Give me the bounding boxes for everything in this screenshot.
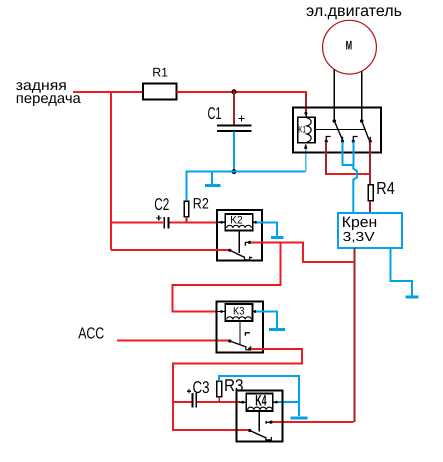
node junction C1 top [232,90,236,94]
wire ACC to K3 armature [117,340,229,342]
K1 switch 2 armature [362,121,369,140]
wire junction drop at x=111 (left bus) [110,92,112,250]
relay K1 outer box [293,108,381,153]
wire R3 bottom stub [218,397,220,403]
wire contact A down [325,141,327,175]
K3 armature [228,339,231,342]
K4 coil terminals [239,401,246,403]
K3 coil terminals [218,311,225,313]
K1 switch 2 common node [360,119,364,123]
wire Kren output down (dark red) [353,248,355,422]
wire R2 bottom stub [185,217,187,223]
ground G4 [405,295,418,298]
K4 armature [248,429,251,432]
svg-text:передача: передача [16,91,82,107]
wire R1 right to node above K1 [176,91,307,93]
K3 moving contact bracket [246,346,251,350]
wire R3 top to cyan net [219,376,299,416]
K2 moving contact bracket [245,257,253,260]
K3 NO bracket [245,333,250,336]
resistor R2 [184,195,209,216]
wire reverse-gear feed to R1 [73,91,143,93]
wire motor left lead [333,70,335,121]
wire contact D down to R4 [369,141,371,184]
K2 armature [228,249,231,252]
wire crossover A to R4 column [326,173,370,175]
svg-text:K1: K1 [298,124,306,135]
wire left bus to K2 armature [111,249,229,251]
relay K4 coil box [246,392,272,411]
svg-text:C2: C2 [154,195,169,214]
wire C1 top stub [233,93,235,124]
K2 NO contact [245,242,250,245]
K1 switch 1 armature [334,121,342,140]
wire K1 coil bottom down (thin cyan) [305,148,307,172]
K1 coil top terminal [304,112,307,115]
wire C1 bottom to ground bus [233,132,235,172]
K1 mechanical linkage [315,129,365,131]
svg-text:R1: R1 [152,65,168,79]
K4 NO contact [266,421,271,424]
ground G1 [205,172,220,186]
svg-text:эл.двигатель: эл.двигатель [306,3,402,20]
wire branch to K3 coil [173,242,281,311]
svg-text:K2: K2 [230,214,242,226]
wire Kren ground [391,248,412,295]
wire to K4 NO contact [271,421,353,423]
svg-text:R4: R4 [376,178,395,198]
wire K3 out loop to K4 [173,349,302,430]
resistor R3 [217,376,244,396]
svg-text:C1: C1 [208,104,222,123]
capacitor C3 [187,378,210,408]
resistor R1 [143,65,176,99]
wire R4 to Kren [369,201,371,213]
K2 coil terminals [218,221,225,223]
wire K4 coil right to cyan net [277,401,299,403]
relay K1 coil box [298,117,315,142]
relay K2 outer box [217,210,262,260]
relay K2 coil box [225,214,252,231]
wire K2 coil right to ground [256,222,277,236]
svg-text:R3: R3 [224,376,244,395]
svg-text:K3: K3 [233,305,245,317]
K4 mechanical linkage [258,411,260,432]
K1 contact B [342,137,344,142]
wire down into K1 coil top (dark red) [305,93,307,113]
K1 contact D [369,137,371,142]
svg-text:M: M [346,39,353,53]
K2 mechanical linkage [238,231,240,253]
K1 coil bottom terminal [305,145,307,148]
relay K3 outer box [216,301,262,352]
motor M1 [323,20,377,74]
svg-text:R2: R2 [193,195,209,212]
wire branch C3 line [173,401,192,403]
wire contacts B and C join (cyan) [343,141,354,165]
K3 mechanical linkage [239,321,241,345]
wire cyan ground bus to R2 top [186,172,305,202]
wire C2 left [111,221,163,223]
wire K2 NO out to Kren column [251,242,355,261]
relay K3 coil box [225,304,252,321]
ground G3 [269,328,285,331]
wire K3 coil right to ground [256,312,277,328]
K4 moving contact bracket [266,437,271,440]
svg-text:C3: C3 [193,378,210,397]
ground G2 [271,236,284,239]
wire C2 right to K2 coil [169,221,218,223]
resistor R4 [368,178,395,201]
wire motor right lead [361,71,363,121]
node junction C1 bottom [232,170,236,174]
wire B/C node down to Kren with hop over red [353,165,357,213]
capacitor C1 [208,104,252,131]
K1 contact C [353,137,357,142]
svg-text:ACC: ACC [78,325,104,342]
capacitor C2 [154,195,169,229]
K1 contact A [326,137,330,142]
svg-text:3,3V: 3,3V [343,229,375,244]
relay K4 outer box [236,391,282,442]
K1 switch 1 common node [333,119,337,123]
ground G5 [290,416,307,419]
voltage regulator Kren 3.3V [338,213,402,248]
